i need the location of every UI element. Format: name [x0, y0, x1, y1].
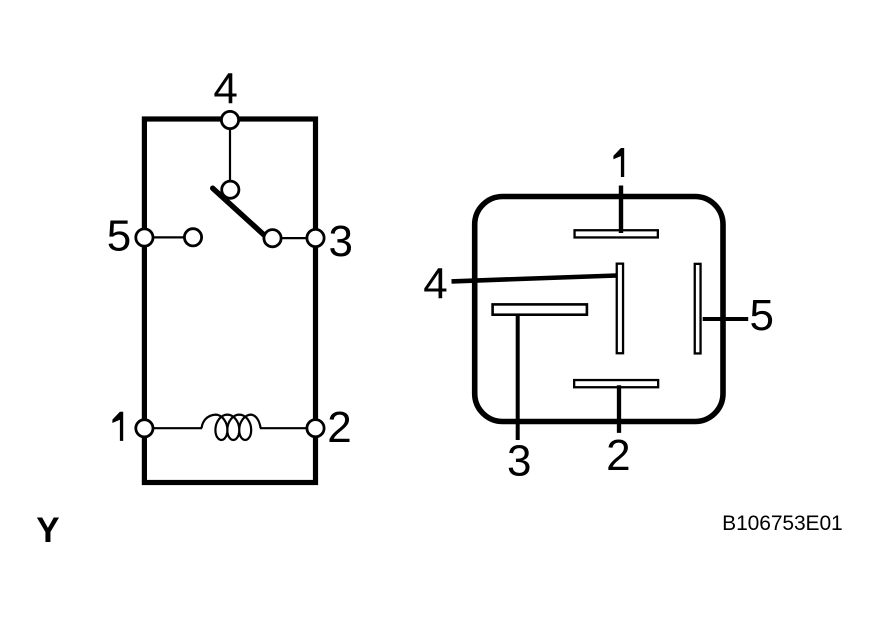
svg-text:3: 3 [329, 217, 353, 266]
terminal 5 circle [136, 229, 153, 246]
common contact circle [264, 230, 281, 247]
terminal 3 circle [307, 229, 324, 246]
svg-text:3: 3 [507, 436, 531, 485]
svg-text:5: 5 [750, 291, 774, 340]
terminal 1 circle [136, 420, 153, 437]
wire: terminal 1 to coil [153, 427, 202, 429]
svg-text:Y: Y [36, 511, 59, 550]
pin label 1 (schematic) [112, 412, 123, 441]
svg-text:4: 4 [423, 259, 447, 308]
pin 2 terminal blade [574, 380, 658, 387]
svg-text:5: 5 [107, 212, 131, 261]
relay connector case outline (pin layout) [475, 197, 723, 422]
pin label 1 (layout) [613, 148, 624, 177]
svg-text:B106753E01: B106753E01 [722, 512, 842, 535]
pin 4 terminal blade [617, 264, 623, 354]
svg-text:2: 2 [606, 431, 630, 480]
pin 3 terminal blade [493, 304, 587, 314]
wire: common contact to terminal 3 [281, 237, 307, 239]
terminal 4 junction circle [221, 111, 238, 128]
wire: terminal 5 to NC contact [153, 236, 185, 238]
pin 2 lead line [617, 385, 621, 433]
svg-text:2: 2 [327, 403, 351, 452]
coil L (relay winding) [202, 415, 261, 440]
wire: terminal 4 to switch pivot [229, 130, 231, 181]
NC contact circle [184, 229, 201, 246]
switch pivot circle [222, 181, 239, 198]
wire: coil to terminal 2 [260, 427, 307, 429]
pin 1 terminal blade [575, 230, 658, 237]
switch blade (movable contact arm) [213, 188, 267, 237]
pin 3 lead line [516, 316, 520, 440]
pin 1 lead line [619, 186, 623, 234]
pin 5 terminal blade [695, 264, 701, 354]
svg-text:4: 4 [213, 65, 237, 114]
pin 5 lead line [703, 317, 749, 321]
relay internal-schematic case outline [144, 119, 315, 483]
terminal 2 circle [307, 420, 324, 437]
pin 4 lead line [452, 276, 617, 282]
